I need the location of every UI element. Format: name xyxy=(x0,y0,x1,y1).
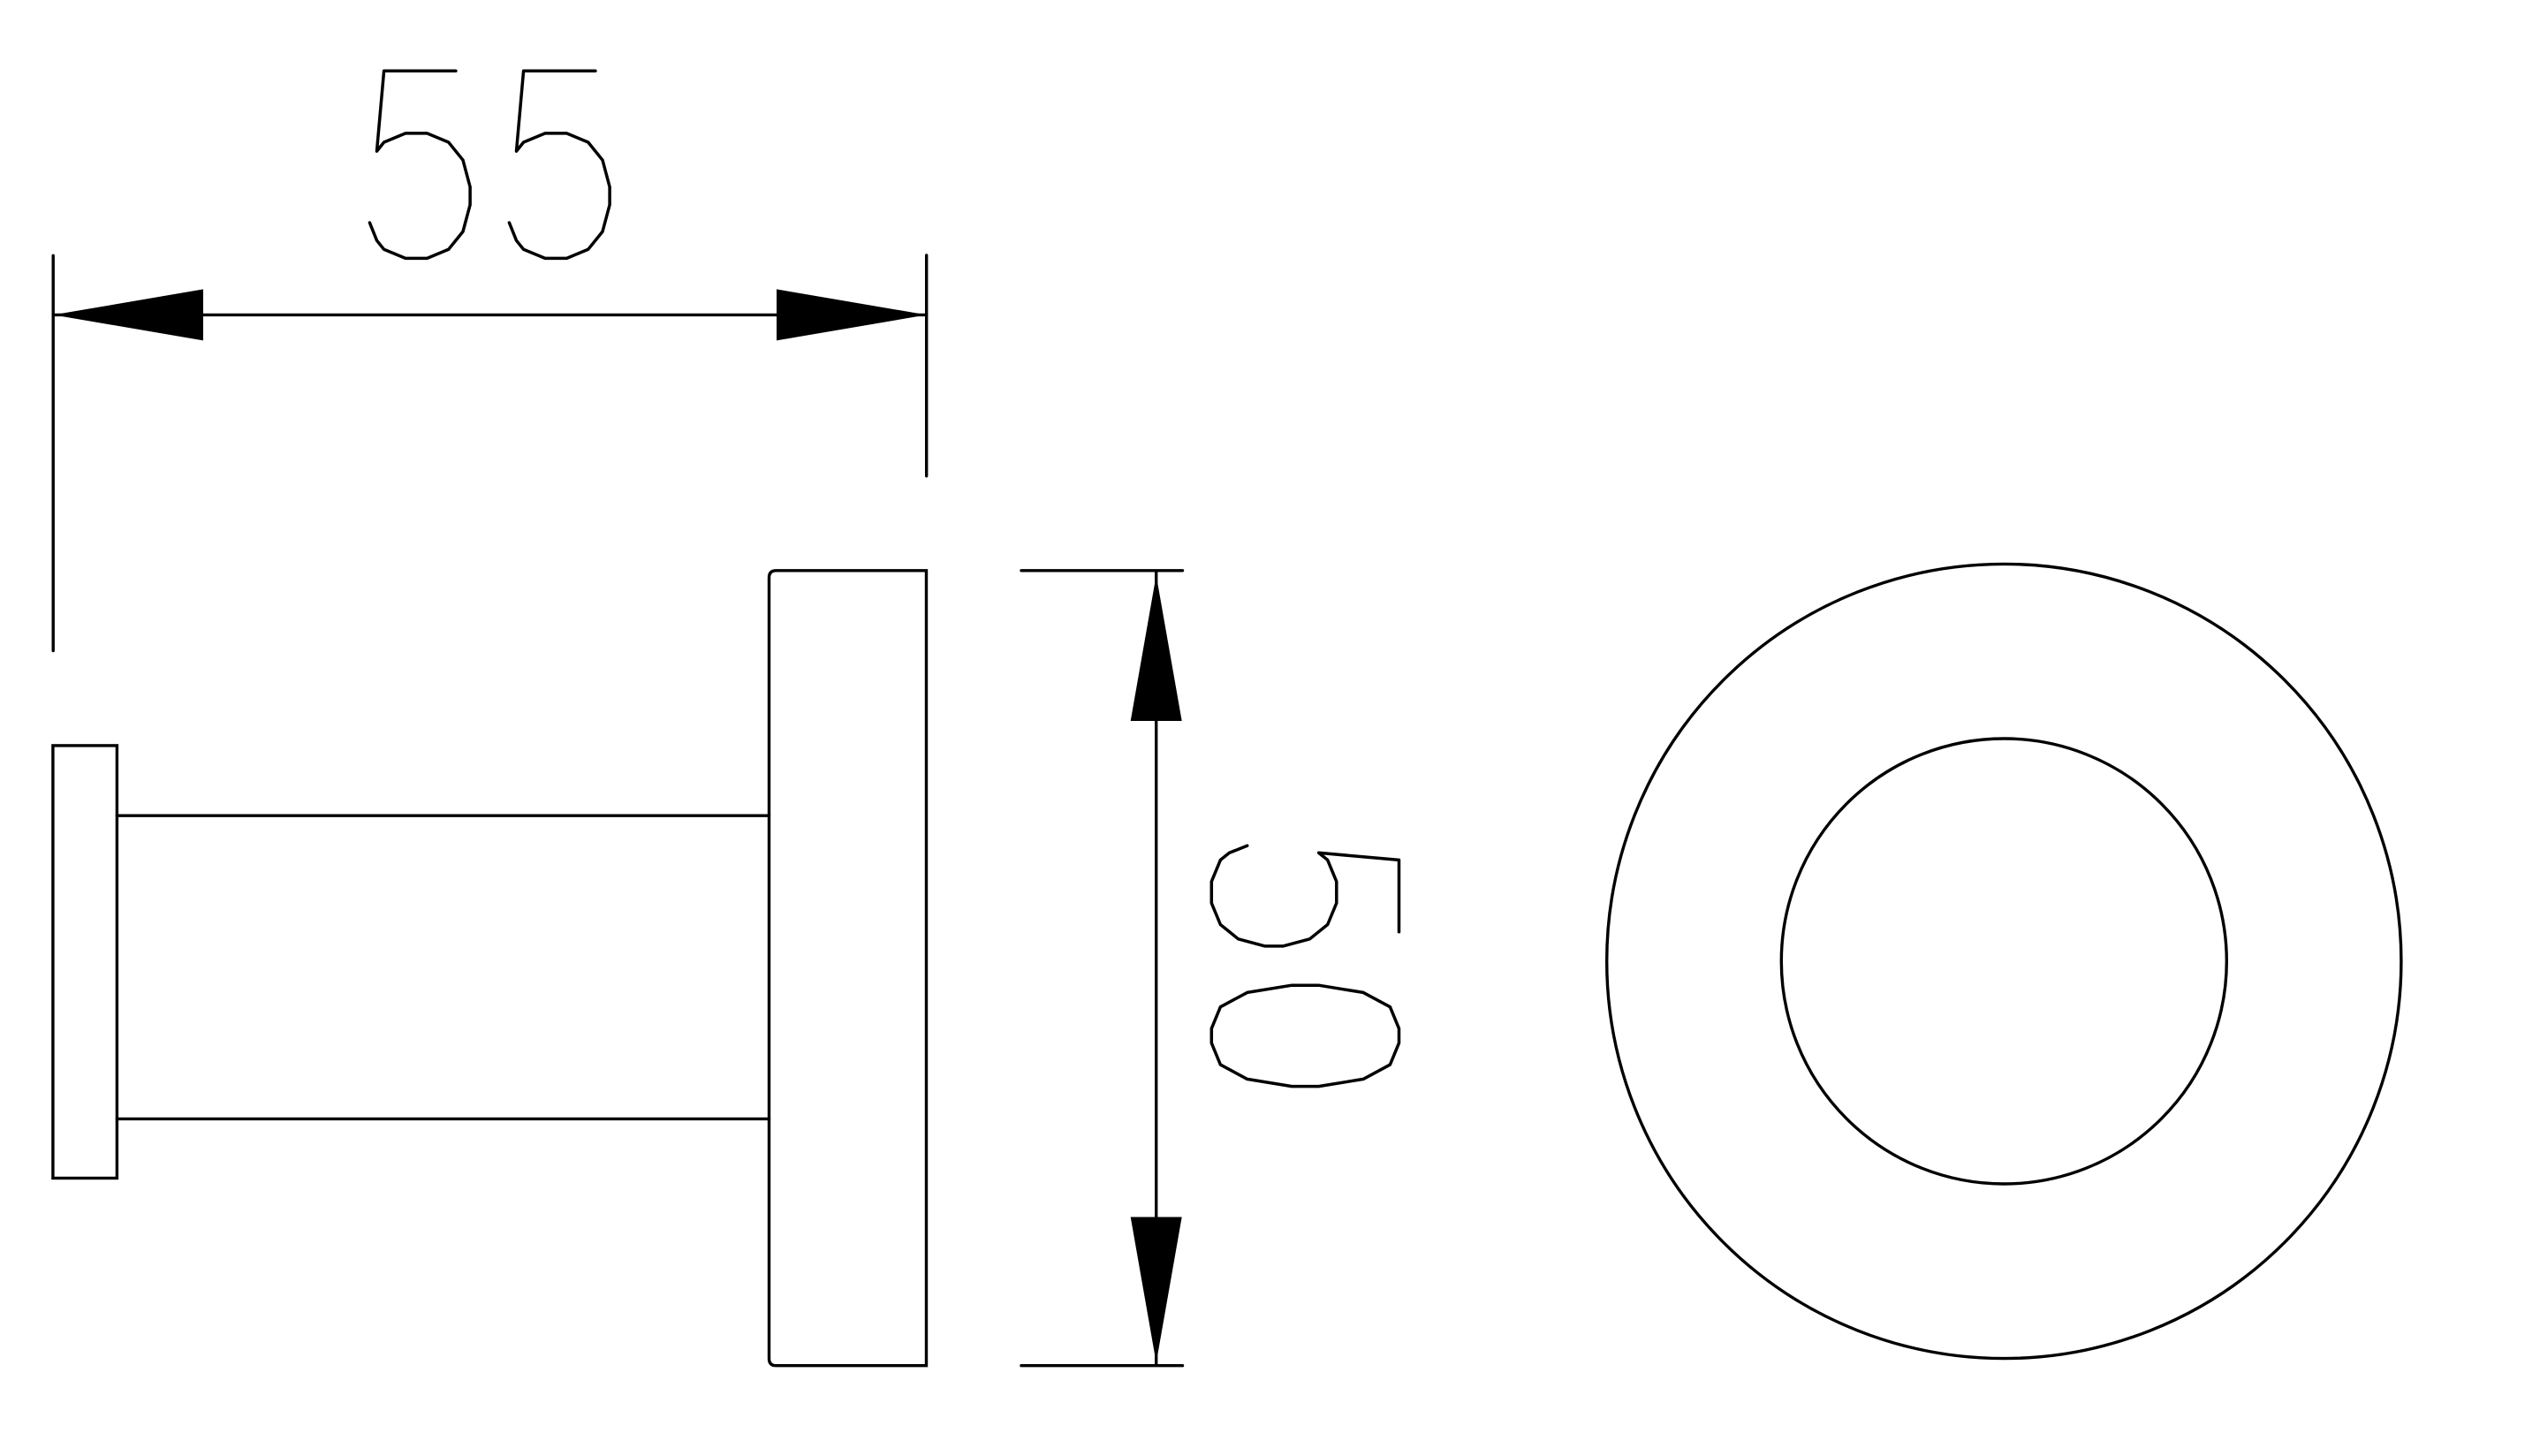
horizontal dimension 55: right extension line xyxy=(925,255,928,476)
dimension text 50 (rotated): digit 0 xyxy=(1211,985,1399,1086)
arrowhead left of 55 dimension xyxy=(53,289,203,340)
arrowhead right of 55 dimension xyxy=(777,289,927,340)
side view: knob disc rounded rectangle xyxy=(770,571,927,1366)
side view: stem top line xyxy=(117,815,769,817)
front view: inner circle xyxy=(1781,739,2226,1184)
vertical dimension 50: dimension line xyxy=(1155,573,1157,1364)
side view: stem bottom line xyxy=(117,1118,769,1120)
arrowhead up of 50 dimension xyxy=(1131,575,1182,721)
front view: outer circle xyxy=(1607,564,2401,1358)
side view: wall plate rectangle xyxy=(53,746,117,1179)
dimension text 55: second digit 5 xyxy=(509,71,610,258)
horizontal dimension 55: dimension line xyxy=(53,314,926,316)
dimension text 50 (rotated): digit 5 xyxy=(1211,846,1399,946)
dimension text 55: first digit 5 xyxy=(369,71,470,258)
arrowhead down of 50 dimension xyxy=(1131,1217,1182,1363)
vertical dimension 50: top extension line xyxy=(1021,569,1183,572)
vertical dimension 50: bottom extension line xyxy=(1021,1364,1183,1367)
horizontal dimension 55: left extension line xyxy=(52,255,55,650)
